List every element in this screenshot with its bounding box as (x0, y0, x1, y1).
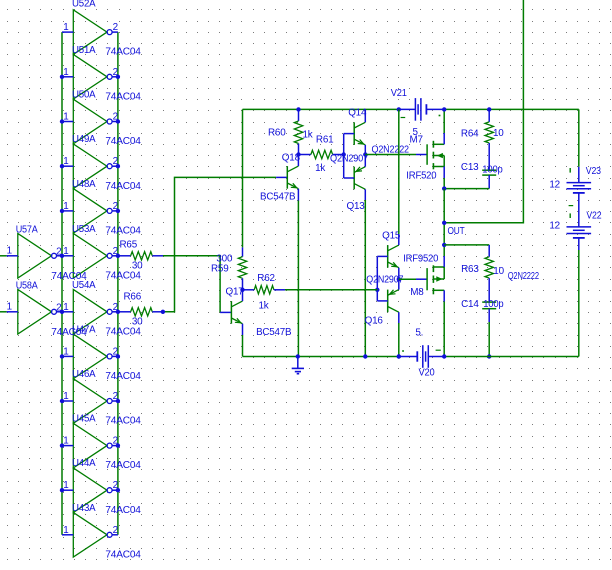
V20 minus mark (436, 349, 441, 351)
svg-text:U50A: U50A (72, 90, 96, 101)
inverter U51A (74AC04) (62, 55, 118, 100)
wire Q18 emitter to ground rail (297, 201, 299, 357)
wire C14 to ground rail (488, 322, 490, 357)
junction C13 wire (442, 186, 446, 190)
svg-text:U45A: U45A (72, 414, 96, 425)
wire M8 source to rail (443, 302, 445, 357)
junction output bus (116, 75, 120, 79)
wire ground rail right (444, 356, 579, 358)
svg-text:30: 30 (132, 316, 143, 327)
wire top rail left (243, 108, 399, 110)
inverter U54A (74AC04) (62, 290, 118, 335)
junction OUT (442, 221, 446, 225)
svg-text:1: 1 (63, 112, 69, 123)
wire R66 to Q18 base (163, 177, 276, 311)
junction output bus (116, 254, 120, 258)
junction V20 right (442, 354, 446, 358)
junction output bus (116, 119, 120, 123)
wire M7 source down (443, 178, 445, 189)
svg-text:U43A: U43A (72, 503, 96, 514)
junction input bus (60, 119, 64, 123)
inverter U47A (74AC04) (62, 334, 118, 379)
transistor Q15 (NPN driver) (377, 234, 399, 279)
svg-text:1: 1 (63, 480, 69, 491)
svg-text:1: 1 (7, 246, 13, 257)
resistor R64 (485, 109, 493, 170)
svg-text:1: 1 (63, 436, 69, 447)
V21 minus mark (401, 117, 406, 119)
transistor Q13 (Q2N2907) (344, 155, 366, 201)
svg-text:74AC04: 74AC04 (105, 47, 141, 58)
junction input bus (60, 254, 64, 258)
junction R66 output (161, 310, 165, 314)
V22 minus mark (569, 213, 571, 218)
transistor Q18 (BC547B) (287, 155, 298, 201)
inverter U48A (74AC04) (62, 189, 118, 234)
resistor R66 (118, 308, 163, 316)
svg-text:10: 10 (493, 266, 504, 277)
junction output bus (116, 443, 120, 447)
junction V21 left (397, 107, 401, 111)
wire Q15 collector to rail (398, 109, 400, 234)
svg-text:1: 1 (63, 346, 69, 357)
svg-text:100p: 100p (483, 299, 504, 310)
junction input bus (60, 443, 64, 447)
svg-text:5: 5 (413, 127, 419, 138)
junction C14 bottom (487, 354, 491, 358)
wire Q16 emitter to ground rail (398, 323, 400, 357)
junction V21 right (442, 107, 446, 111)
svg-text:R63: R63 (461, 264, 479, 275)
junction output bus (116, 354, 120, 358)
mosfet M8 (IRF9520) (427, 256, 444, 302)
svg-text:Q2N2907: Q2N2907 (330, 154, 368, 165)
svg-text:12: 12 (549, 221, 560, 232)
junction Q14/Q13 emitters (363, 152, 367, 156)
battery V21 (399, 98, 444, 121)
junction input bus (60, 209, 64, 213)
capacitor C14 (482, 302, 496, 322)
junction output bus (116, 310, 120, 314)
svg-text:R64: R64 (461, 128, 479, 139)
capacitor C13 (482, 170, 496, 188)
svg-text:74AC04: 74AC04 (105, 326, 141, 337)
svg-text:1: 1 (63, 525, 69, 536)
wire C13 to OUT branch (444, 188, 489, 190)
svg-text:U49A: U49A (72, 134, 96, 145)
svg-text:U46A: U46A (72, 369, 96, 380)
svg-text:74AC04: 74AC04 (105, 270, 141, 281)
svg-text:C14: C14 (461, 299, 479, 310)
V21 plus mark (439, 115, 441, 117)
svg-text:Q13: Q13 (347, 201, 366, 212)
svg-text:1: 1 (63, 246, 69, 257)
wire rail to V23 (578, 109, 580, 166)
svg-text:Q14: Q14 (348, 107, 367, 118)
svg-text:Q18: Q18 (282, 153, 301, 164)
transistor Q16 (Q2N2907) (377, 279, 399, 323)
inverter U45A (74AC04) (62, 423, 118, 468)
wire V22 to ground rail (578, 250, 580, 357)
svg-text:74AC04: 74AC04 (105, 91, 141, 102)
wire Q13/Q14 base link (343, 134, 345, 178)
svg-text:74AC04: 74AC04 (105, 505, 141, 516)
junction Q16 emitter bottom (397, 354, 401, 358)
svg-text:1: 1 (63, 22, 69, 33)
resistor R63 (485, 257, 493, 302)
junction V20 left (397, 354, 401, 358)
svg-text:U51A: U51A (72, 45, 96, 56)
svg-text:74AC04: 74AC04 (51, 271, 87, 282)
svg-text:74AC04: 74AC04 (105, 371, 141, 382)
resistor R59 (238, 247, 246, 289)
svg-text:IRF9520: IRF9520 (403, 253, 439, 264)
wire OUT to R63 (444, 244, 489, 246)
svg-text:Q2N2222: Q2N2222 (508, 271, 539, 282)
svg-text:R66: R66 (124, 292, 142, 303)
junction R60 bottom (296, 152, 300, 156)
svg-text:M8: M8 (410, 287, 424, 298)
svg-text:1: 1 (63, 302, 69, 313)
svg-text:74AC04: 74AC04 (105, 136, 141, 147)
svg-text:2: 2 (56, 246, 61, 257)
wire top rail right (444, 108, 579, 110)
resistor R61 (299, 150, 344, 158)
svg-text:R61: R61 (316, 134, 334, 145)
svg-text:U48A: U48A (72, 179, 96, 190)
svg-text:R62: R62 (257, 273, 275, 284)
svg-text:74AC04: 74AC04 (105, 226, 141, 237)
battery V23 (567, 167, 592, 227)
junction output bus (116, 209, 120, 213)
svg-text:U52A: U52A (72, 0, 96, 10)
svg-text:1: 1 (63, 391, 69, 402)
svg-text:V22: V22 (586, 210, 601, 221)
wire output bus (right vertical) (117, 32, 119, 535)
junction output bus (116, 164, 120, 168)
svg-text:74AC04: 74AC04 (105, 460, 141, 471)
junction R64 top (487, 107, 491, 111)
svg-text:V20: V20 (419, 367, 436, 378)
battery V22 (567, 227, 592, 250)
junction R63 branch (442, 243, 446, 247)
wire Q18 base stub (276, 176, 287, 178)
svg-text:C13: C13 (461, 162, 479, 173)
transistor Q14 (Q2N2222) (344, 109, 366, 154)
wire gate M7 (365, 154, 416, 156)
junction input bus (60, 488, 64, 492)
svg-text:U53A: U53A (72, 224, 96, 235)
wire M7 drain to rail (443, 109, 445, 133)
inverter U52A (74AC04) (62, 10, 118, 55)
junction R59 bottom (240, 288, 244, 292)
svg-text:R65: R65 (120, 240, 138, 251)
svg-text:Q17: Q17 (226, 287, 244, 298)
svg-text:74AC04: 74AC04 (105, 181, 141, 192)
inverter U49A (74AC04) (62, 144, 118, 189)
junction input bus (60, 164, 64, 168)
inverter U57A (74AC04) (7, 234, 62, 279)
junction output bus (116, 399, 120, 403)
svg-text:U44A: U44A (72, 458, 96, 469)
V20 plus mark (402, 350, 404, 352)
V23 plus mark (569, 168, 571, 173)
ground (292, 357, 304, 374)
svg-text:2: 2 (113, 525, 118, 536)
inverter U50A (74AC04) (62, 99, 118, 144)
junction base link (375, 288, 379, 292)
battery V20 (399, 345, 444, 368)
junction input bus (60, 399, 64, 403)
svg-text:12: 12 (549, 180, 560, 191)
svg-text:1: 1 (7, 302, 13, 313)
wire M8 drain to OUT (443, 245, 445, 256)
wire R62 to Q15/Q16 bases (285, 289, 377, 291)
junction M8 gate node (397, 277, 401, 281)
wire Q15/Q16 base link (376, 256, 378, 301)
wire input of U57A (0, 255, 7, 257)
junction Q13 collector bottom (363, 354, 367, 358)
junction Q18 emitter (296, 354, 300, 358)
svg-text:1k: 1k (303, 129, 313, 140)
wire input bus (left vertical) (61, 32, 63, 535)
svg-text:1: 1 (63, 201, 69, 212)
svg-text:1: 1 (63, 67, 69, 78)
svg-text:1: 1 (63, 156, 69, 167)
svg-text:V23: V23 (586, 166, 602, 177)
transistor Q17 (BC547B) (231, 290, 242, 335)
svg-text:BC547B: BC547B (260, 192, 296, 203)
svg-text:10: 10 (493, 128, 504, 139)
svg-text:R59: R59 (211, 264, 229, 275)
svg-text:1k: 1k (315, 163, 325, 174)
junction input bus (60, 310, 64, 314)
inverter U43A (74AC04) (62, 513, 118, 558)
wire ground rail left (243, 356, 399, 358)
svg-text:IRF520: IRF520 (406, 170, 437, 181)
wire gate M8 (399, 278, 416, 280)
junction input bus (60, 354, 64, 358)
inverter U44A (74AC04) (62, 468, 118, 513)
resistor R60 (294, 109, 302, 154)
wire Q17 base stub (220, 311, 231, 313)
mosfet M7 (IRF520) (427, 133, 444, 178)
svg-text:100p: 100p (482, 164, 503, 175)
svg-text:2: 2 (56, 302, 61, 313)
junction R61 to bases (342, 152, 346, 156)
wire R65 to Q17 base (163, 256, 220, 313)
inverter U53A (74AC04) (62, 234, 118, 279)
wire Q13 collector to ground rail (364, 200, 366, 357)
svg-text:74AC04: 74AC04 (51, 327, 87, 338)
svg-text:1k: 1k (259, 301, 269, 312)
inverter U58A (74AC04) (7, 290, 62, 335)
svg-text:30: 30 (132, 260, 143, 271)
svg-text:Q16: Q16 (365, 316, 384, 327)
svg-text:5.: 5. (415, 327, 423, 338)
wire Q17 emitter to rail (242, 335, 244, 357)
svg-text:2: 2 (113, 22, 118, 33)
svg-text:R60: R60 (268, 127, 286, 138)
svg-text:74AC04: 74AC04 (105, 549, 141, 560)
node OUT wire (444, 0, 523, 223)
V22 plus mark (569, 205, 574, 207)
resistor R65 (118, 252, 163, 260)
svg-text:74AC04: 74AC04 (105, 416, 141, 427)
resistor R62 (243, 286, 286, 294)
wire rail down to R59 (242, 109, 244, 247)
junction input bus (60, 75, 64, 79)
junction output bus (116, 488, 120, 492)
svg-text:U57A: U57A (16, 224, 38, 235)
wire input of U58A (0, 311, 7, 313)
svg-text:V21: V21 (391, 88, 408, 99)
inverter U46A (74AC04) (62, 379, 118, 424)
junction R60 top (296, 107, 300, 111)
svg-text:U58A: U58A (16, 280, 38, 291)
svg-text:BC547B: BC547B (256, 327, 292, 338)
wire M7 source to M8 drain (443, 189, 445, 245)
svg-text:OUT: OUT (448, 226, 465, 237)
